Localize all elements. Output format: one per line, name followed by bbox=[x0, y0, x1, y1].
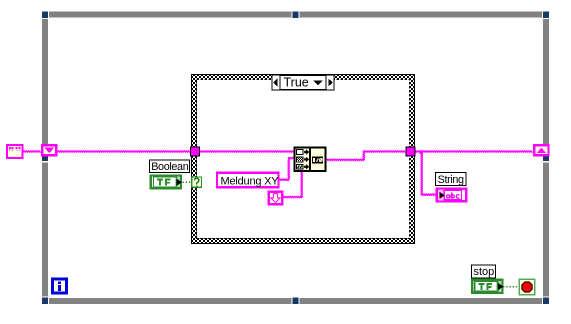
svg-text:True: True bbox=[284, 76, 309, 90]
svg-text:Meldung XY: Meldung XY bbox=[221, 175, 280, 187]
svg-text:Boolean: Boolean bbox=[151, 161, 189, 173]
svg-text:String: String bbox=[438, 174, 464, 186]
svg-text:stop: stop bbox=[474, 266, 495, 278]
